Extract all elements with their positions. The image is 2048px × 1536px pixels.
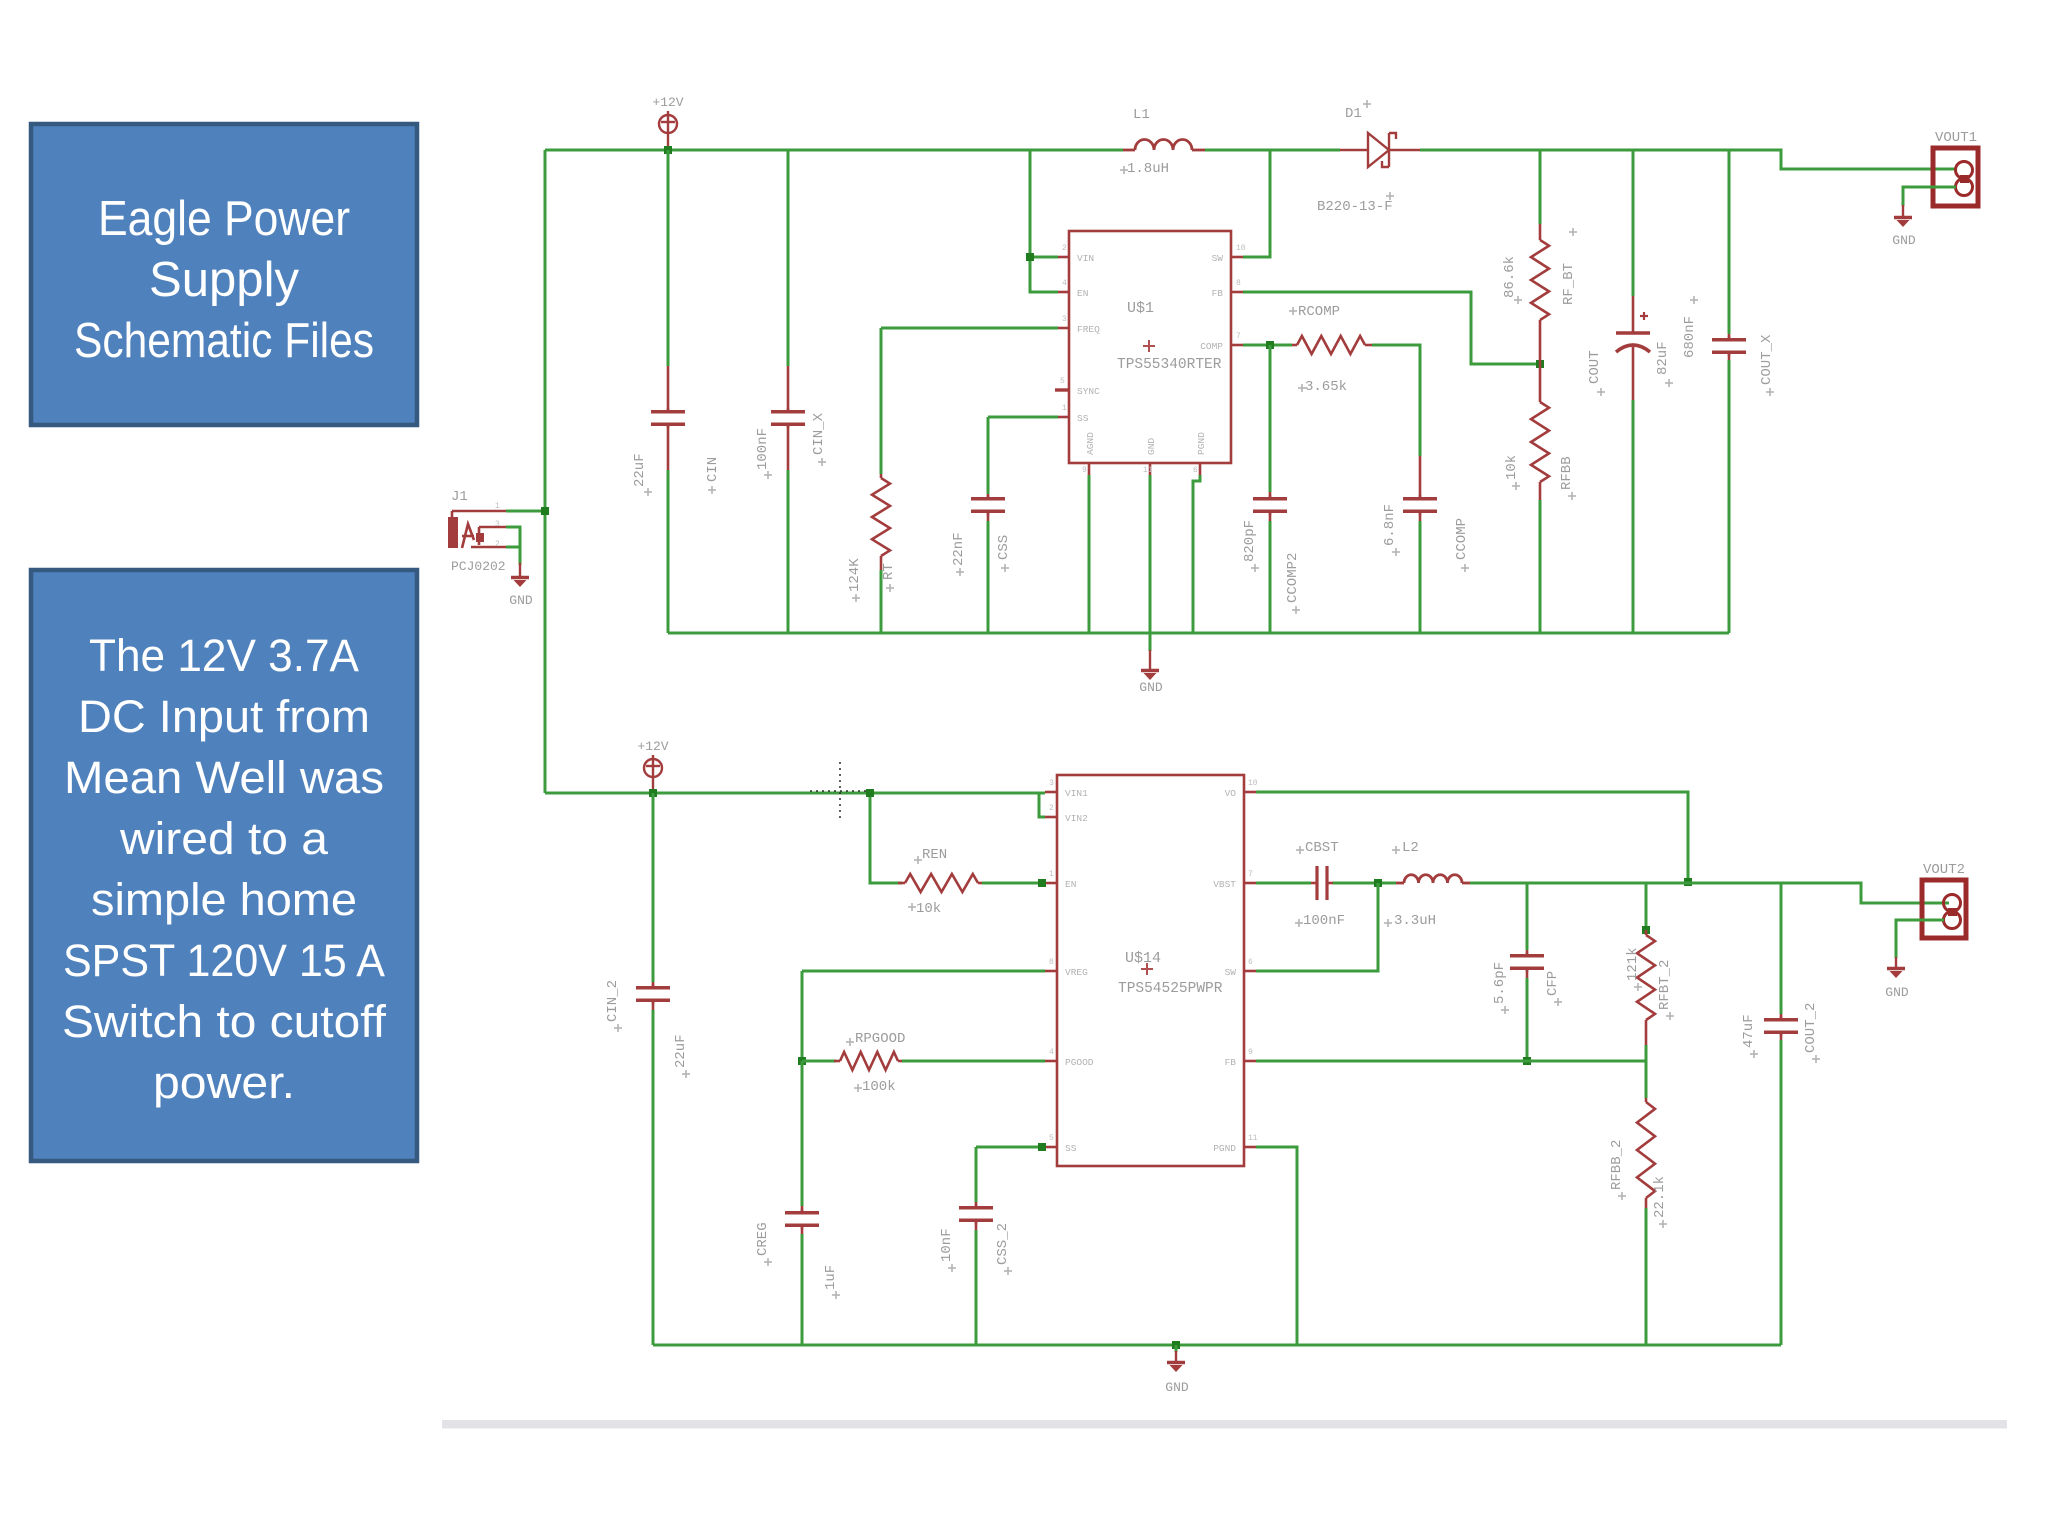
wire top rail to COUT	[1632, 150, 1635, 296]
svg-text:CSS_2: CSS_2	[995, 1223, 1011, 1265]
svg-text:1uF: 1uF	[823, 1265, 839, 1290]
svg-text:+12V: +12V	[637, 739, 668, 754]
origin cross 121k	[1634, 983, 1642, 991]
wire left +12V vertical rail	[544, 150, 547, 793]
origin cross 10k REN	[908, 903, 916, 911]
wire RT to FREQ	[881, 327, 1058, 330]
svg-text:22uF: 22uF	[673, 1034, 689, 1068]
svg-text:CCOMP2: CCOMP2	[1285, 553, 1301, 603]
wire top rail to SW U$1	[1243, 150, 1270, 257]
wire CSS top vertical	[987, 417, 990, 494]
svg-text:10: 10	[1236, 244, 1246, 253]
resistor RFBT_2	[1637, 930, 1655, 1045]
svg-text:SW: SW	[1225, 967, 1237, 978]
svg-text:EN: EN	[1065, 879, 1076, 890]
capacitor CREG	[785, 1206, 819, 1234]
origin cross COUT	[1597, 388, 1605, 396]
capacitor CSS	[971, 494, 1005, 521]
wire FB to RFBB_2	[1645, 1061, 1648, 1098]
svg-text:J1: J1	[451, 489, 468, 505]
wire COUT_2 to bottom rail	[1780, 1040, 1783, 1345]
origin cross CCOMP2	[1292, 606, 1300, 614]
junction +12V bottom	[649, 789, 657, 797]
svg-text:3: 3	[1062, 315, 1067, 324]
origin cross 1uF	[832, 1291, 840, 1299]
origin cross 86.6k	[1514, 296, 1522, 304]
svg-text:3.65k: 3.65k	[1305, 379, 1347, 395]
origin cross COUT_X	[1766, 388, 1774, 396]
wire PGND to rail	[1193, 475, 1200, 633]
op-amp U$14 TPS54525PWPR (IC box)	[1045, 775, 1256, 1166]
svg-text:RT: RT	[881, 563, 897, 580]
capacitor CIN	[651, 366, 685, 470]
svg-text:U$1: U$1	[1127, 300, 1154, 317]
wire bottom rail to GND symbol	[1175, 1345, 1178, 1352]
origin cross RT	[886, 584, 894, 592]
origin cross 100nF	[764, 471, 772, 479]
origin cross COUT_2	[1812, 1055, 1820, 1063]
wire FB to divider	[1243, 292, 1540, 364]
ground GND at VOUT2	[1887, 957, 1905, 978]
svg-text:7: 7	[1236, 332, 1241, 341]
svg-text:11: 11	[1248, 1134, 1258, 1143]
svg-text:RPGOOD: RPGOOD	[855, 1031, 905, 1047]
origin cross 10nF	[948, 1264, 956, 1272]
svg-text:RF_BT: RF_BT	[1561, 263, 1577, 305]
svg-text:8: 8	[1049, 958, 1054, 967]
junction VREG/PGOOD/CREG	[798, 1057, 806, 1065]
svg-text:RCOMP: RCOMP	[1298, 304, 1340, 320]
origin cross 82uF	[1665, 379, 1673, 387]
wire output to VOUT2	[1470, 883, 1949, 903]
svg-text:Mean Well was: Mean Well was	[64, 752, 384, 803]
origin cross B220-13-F	[1386, 192, 1394, 200]
svg-text:VOUT1: VOUT1	[1935, 130, 1977, 146]
svg-text:VO: VO	[1225, 788, 1237, 799]
resistor RPGOOD	[834, 1052, 904, 1070]
wire VOUT1 pin2 to ground	[1903, 187, 1956, 206]
svg-text:COUT_X: COUT_X	[1759, 334, 1775, 385]
svg-text:wired to a: wired to a	[119, 813, 329, 864]
origin cross CREG	[764, 1258, 772, 1266]
wire RFBB_2 to bottom rail	[1645, 1208, 1648, 1345]
junction J1/+12V rail	[541, 507, 549, 515]
svg-text:DC Input from: DC Input from	[78, 691, 370, 742]
svg-text:SW: SW	[1212, 253, 1224, 264]
wire to VIN U$1	[1030, 256, 1058, 259]
power +12V supply (bottom)	[644, 755, 662, 794]
origin cross 100k	[854, 1084, 862, 1092]
wire +12V rail top (left of L1)	[545, 149, 1123, 152]
wire VREG vertical	[801, 971, 804, 1061]
wire top rail to COUT_X	[1728, 150, 1731, 334]
origin cross 820pF	[1251, 564, 1259, 572]
svg-text:B220-13-F: B220-13-F	[1317, 199, 1393, 215]
svg-text:820pF: 820pF	[1242, 520, 1258, 562]
svg-text:9: 9	[1248, 1048, 1253, 1057]
svg-text:10nF: 10nF	[939, 1228, 955, 1262]
svg-text:100nF: 100nF	[755, 428, 771, 470]
svg-text:L2: L2	[1402, 840, 1419, 856]
svg-text:100k: 100k	[862, 1079, 896, 1095]
svg-text:9: 9	[1082, 466, 1087, 475]
svg-text:GND: GND	[509, 593, 533, 608]
wire CBST to L2	[1333, 882, 1396, 885]
svg-text:VREG: VREG	[1065, 967, 1088, 978]
svg-text:EN: EN	[1077, 288, 1088, 299]
capacitor CFP	[1510, 950, 1544, 978]
wire RFBB to gnd rail	[1539, 500, 1542, 633]
junction COMP/CCOMP2	[1266, 341, 1274, 349]
wire REN to EN U$14	[982, 882, 1045, 885]
junction VO/output	[1684, 878, 1692, 886]
svg-text:L1: L1	[1133, 107, 1150, 123]
wire RPGOOD to PGOOD U$14	[902, 1060, 1045, 1063]
origin cross 47uF	[1750, 1050, 1758, 1058]
svg-text:GND: GND	[1892, 233, 1916, 248]
wire CCOMP to gnd rail	[1419, 521, 1422, 633]
wire CIN_2 to bottom rail	[652, 1010, 655, 1345]
junction VIN branch	[1026, 253, 1034, 261]
wire CSS_2 to bottom rail	[975, 1230, 978, 1345]
origin cross CFP	[1554, 998, 1562, 1006]
capacitor COUT	[1616, 296, 1650, 400]
origin cross 100nF CBST	[1295, 919, 1303, 927]
svg-text:PGND: PGND	[1213, 1143, 1236, 1154]
junction REN branch	[866, 789, 874, 797]
origin cross RF_BT	[1569, 228, 1577, 236]
svg-text:CREG: CREG	[755, 1222, 771, 1256]
wire CCOMP2 to gnd rail	[1269, 521, 1272, 633]
junction SW bootstrap	[1374, 879, 1382, 887]
origin cross 10k RFBB	[1512, 482, 1520, 490]
origin cross U$14	[1141, 963, 1153, 975]
origin cross REN	[914, 856, 922, 864]
wire CIN to gnd rail	[667, 470, 670, 633]
ground GND at J1	[511, 563, 529, 587]
svg-text:TPS55340RTER: TPS55340RTER	[1117, 357, 1222, 373]
capacitor COUT_X	[1712, 334, 1746, 360]
capacitor CSS_2	[959, 1202, 993, 1230]
wire CCOMP2 top vertical	[1269, 345, 1272, 492]
origin cross CCOMP	[1461, 564, 1469, 572]
svg-text:Supply: Supply	[149, 253, 299, 307]
wire L1 to D1	[1205, 149, 1340, 152]
wire +12V rail bottom	[545, 792, 1045, 795]
svg-text:1.8uH: 1.8uH	[1127, 161, 1169, 177]
origin cross 22.1k	[1659, 1220, 1667, 1228]
connector VOUT1	[1933, 148, 1978, 206]
resistor RF_BT	[1531, 224, 1549, 364]
wire VBST to CBST	[1256, 882, 1311, 885]
svg-text:RFBB: RFBB	[1559, 456, 1575, 490]
wire J1 pins 2-3 bracket	[506, 527, 520, 547]
ground GND bottom circuit	[1167, 1351, 1185, 1372]
wire top rail to EN U$1	[1030, 150, 1058, 292]
svg-text:COMP: COMP	[1200, 341, 1223, 352]
wire to RPGOOD	[802, 1060, 836, 1063]
svg-text:VIN: VIN	[1077, 253, 1094, 264]
wire ground rail (top circuit)	[668, 632, 1729, 635]
wire AGND to rail	[1088, 475, 1091, 633]
wire J1 pin1 to +12V rail	[506, 510, 545, 513]
junction RFBT_2 lead	[1642, 926, 1650, 934]
origin cross CBST	[1296, 846, 1304, 854]
svg-text:VIN2: VIN2	[1065, 813, 1088, 824]
origin cross CIN_X	[818, 458, 826, 466]
svg-text:47uF: 47uF	[1741, 1014, 1757, 1048]
svg-text:simple home: simple home	[91, 874, 357, 925]
diode D1	[1340, 133, 1420, 167]
scrollbar track bottom	[442, 1420, 2007, 1429]
junction FB divider	[1536, 360, 1544, 368]
junction SS pin U$14	[1038, 1143, 1046, 1151]
svg-text:10: 10	[1248, 779, 1258, 788]
svg-text:5: 5	[1049, 1134, 1054, 1143]
svg-text:22.1k: 22.1k	[1652, 1176, 1668, 1218]
svg-text:CCOMP: CCOMP	[1454, 518, 1470, 560]
ground GND top circuit	[1141, 650, 1159, 680]
svg-text:power.: power.	[153, 1057, 295, 1108]
wire FB net bottom	[1256, 1060, 1646, 1063]
wire to CREG	[801, 1061, 804, 1206]
wire top rail to CIN_X	[787, 150, 790, 366]
origin cross L1 value	[1120, 166, 1128, 174]
junction +12V/top rail	[664, 146, 672, 154]
svg-text:121k: 121k	[1625, 947, 1641, 981]
svg-text:22nF: 22nF	[951, 532, 967, 566]
wire gnd rail to GND symbol	[1149, 633, 1152, 651]
origin cross L2	[1392, 846, 1400, 854]
origin cross D1	[1363, 100, 1371, 108]
junction EN pin U$14	[1038, 879, 1046, 887]
svg-text:4: 4	[1049, 1048, 1054, 1057]
wire CIN_X to gnd rail	[787, 470, 790, 633]
origin cross CIN	[708, 486, 716, 494]
resistor RCOMP	[1292, 336, 1372, 354]
resistor RFBB_2	[1637, 1098, 1655, 1208]
svg-text:REN: REN	[922, 847, 947, 863]
wire output to CFP	[1526, 883, 1529, 950]
ground GND at VOUT1	[1894, 205, 1912, 227]
wire CSS_2 to SS U$14	[976, 1146, 1045, 1149]
origin cross RFBB_2	[1618, 1192, 1626, 1200]
wire VREG to CREG	[802, 970, 1045, 973]
inductor L2	[1404, 875, 1462, 883]
svg-text:86.6k: 86.6k	[1502, 256, 1518, 298]
svg-text:GND: GND	[1139, 680, 1163, 695]
junction CFP/FB	[1523, 1057, 1531, 1065]
svg-text:11: 11	[1143, 466, 1153, 475]
svg-text:VBST: VBST	[1213, 879, 1236, 890]
origin cross CSS_2	[1004, 1267, 1012, 1275]
origin cross 124K	[852, 594, 860, 602]
svg-text:Eagle Power: Eagle Power	[98, 192, 350, 246]
capacitor CCOMP2	[1253, 492, 1287, 521]
origin cross 22nF	[956, 568, 964, 576]
svg-text:6.8nF: 6.8nF	[1382, 504, 1398, 546]
svg-text:Schematic Files: Schematic Files	[74, 314, 374, 368]
svg-text:CIN_2: CIN_2	[605, 980, 621, 1022]
origin cross 3.3uH	[1384, 919, 1392, 927]
op-amp U$1 TPS55340RTER (IC box)	[1055, 231, 1243, 475]
junction bottom rail/GND	[1172, 1341, 1180, 1349]
wire CFP to FB	[1526, 978, 1529, 1061]
svg-text:1: 1	[1049, 870, 1054, 879]
svg-text:+12V: +12V	[652, 95, 683, 110]
svg-text:AGND: AGND	[1085, 432, 1096, 455]
svg-text:2: 2	[495, 540, 500, 549]
origin cross CIN_2	[614, 1024, 622, 1032]
wire RCOMP to CCOMP	[1372, 345, 1420, 456]
svg-text:7: 7	[1248, 870, 1253, 879]
callout box: Eagle Power Supply Schematic Files	[31, 124, 417, 425]
capacitor CIN_X	[771, 366, 805, 470]
wire VIN2 bracket	[1039, 793, 1045, 817]
callout box: The 12V 3.7A DC Input description	[31, 570, 417, 1161]
svg-text:RFBB_2: RFBB_2	[1609, 1140, 1625, 1190]
resistor RFBB	[1531, 364, 1549, 500]
wire top rail to CIN	[667, 150, 670, 366]
origin cross 22uF CIN	[644, 488, 652, 496]
svg-text:TPS54525PWPR: TPS54525PWPR	[1118, 981, 1223, 997]
wire J1 to ground	[519, 547, 522, 565]
capacitor COUT_2	[1764, 1014, 1798, 1040]
svg-text:1: 1	[1062, 404, 1067, 413]
svg-text:22uF: 22uF	[632, 453, 648, 487]
wire GND to rail	[1149, 475, 1152, 633]
origin cross RFBT_2	[1666, 1012, 1674, 1020]
inductor L1	[1135, 140, 1192, 151]
capacitor CIN_2	[636, 982, 670, 1010]
cursor crosshair	[810, 762, 870, 822]
wire CSS to SS	[988, 416, 1058, 419]
svg-text:FB: FB	[1225, 1057, 1237, 1068]
svg-text:GND: GND	[1165, 1380, 1189, 1395]
svg-text:CBST: CBST	[1305, 840, 1339, 856]
svg-text:3: 3	[495, 520, 500, 529]
svg-text:1: 1	[495, 502, 500, 511]
svg-text:3.3uH: 3.3uH	[1394, 913, 1436, 929]
wire COMP to RCOMP	[1243, 344, 1292, 347]
svg-text:FREQ: FREQ	[1077, 324, 1100, 335]
svg-text:10k: 10k	[916, 901, 941, 917]
wire CSS_2 vertical	[975, 1147, 978, 1202]
origin cross 22uF CIN_2	[682, 1070, 690, 1078]
capacitor CCOMP	[1403, 456, 1437, 521]
svg-text:SS: SS	[1077, 413, 1089, 424]
svg-text:D1: D1	[1345, 106, 1362, 122]
wire L2 leads	[1396, 882, 1470, 885]
connector J1 PCJ0202	[448, 511, 506, 548]
svg-text:10k: 10k	[1504, 455, 1520, 480]
svg-text:2: 2	[1049, 804, 1054, 813]
wire +12V to CIN_2	[652, 793, 655, 982]
svg-text:2: 2	[1062, 244, 1067, 253]
wire COUT to gnd rail	[1632, 400, 1635, 633]
wire PGND to bottom rail	[1256, 1147, 1297, 1345]
svg-text:PCJ0202: PCJ0202	[451, 559, 506, 574]
svg-text:FB: FB	[1212, 288, 1224, 299]
svg-text:CFP: CFP	[1545, 971, 1561, 996]
svg-text:CSS: CSS	[996, 535, 1012, 560]
svg-text:Switch to cutoff: Switch to cutoff	[62, 996, 387, 1047]
origin cross 6.8nF	[1392, 548, 1400, 556]
svg-text:6: 6	[1193, 466, 1198, 475]
wire ground rail (bottom circuit)	[653, 1344, 1781, 1347]
svg-text:PGND: PGND	[1196, 432, 1207, 455]
origin cross U$1	[1143, 340, 1155, 352]
svg-text:GND: GND	[1885, 985, 1909, 1000]
wire output to COUT_2	[1780, 883, 1783, 1014]
svg-text:COUT: COUT	[1587, 350, 1603, 384]
svg-text:CIN: CIN	[705, 457, 721, 482]
wire VOUT2 pin2 to ground	[1896, 920, 1944, 958]
svg-text:U$14: U$14	[1125, 950, 1161, 967]
origin cross 5.6pF	[1501, 1006, 1509, 1014]
wire RT to gnd rail	[880, 570, 883, 633]
wire RT top vertical	[880, 328, 883, 474]
svg-text:82uF: 82uF	[1655, 341, 1671, 375]
wire CSS to gnd rail	[987, 521, 990, 633]
wire +12V to REN	[870, 793, 902, 883]
origin cross RFBB	[1568, 492, 1576, 500]
svg-text:3: 3	[1049, 779, 1054, 788]
origin cross RCOMP	[1289, 307, 1297, 315]
capacitor CBST	[1311, 866, 1333, 900]
origin cross CSS	[1001, 564, 1009, 572]
resistor REN	[898, 874, 984, 892]
svg-text:GND: GND	[1146, 438, 1157, 455]
svg-text:CIN_X: CIN_X	[811, 412, 827, 455]
wire top rail to RF_BT	[1539, 150, 1542, 224]
wire RFBT_2 to FB	[1645, 1045, 1648, 1061]
wire D1 cathode to VOUT1 pin1	[1420, 150, 1956, 169]
svg-text:SS: SS	[1065, 1143, 1077, 1154]
connector VOUT2	[1922, 880, 1966, 938]
wire CREG to bottom rail	[801, 1234, 804, 1345]
origin cross RPGOOD	[846, 1038, 854, 1046]
svg-text:COUT_2: COUT_2	[1803, 1003, 1819, 1053]
svg-text:SYNC: SYNC	[1077, 386, 1100, 397]
svg-text:The 12V 3.7A: The 12V 3.7A	[89, 630, 359, 681]
wire L1 leads	[1123, 149, 1205, 152]
svg-text:8: 8	[1236, 279, 1241, 288]
svg-text:SPST 120V 15 A: SPST 120V 15 A	[63, 935, 385, 986]
svg-text:680nF: 680nF	[1682, 316, 1698, 358]
origin cross 680nF	[1690, 296, 1698, 304]
wire output to RFBT_2	[1645, 883, 1648, 928]
svg-text:VIN1: VIN1	[1065, 788, 1088, 799]
wire SW to bootstrap	[1256, 883, 1378, 971]
resistor RT	[872, 474, 890, 570]
wire VO to output	[1256, 792, 1688, 882]
origin cross 3.65k	[1298, 384, 1306, 392]
svg-text:5.6pF: 5.6pF	[1492, 962, 1508, 1004]
svg-text:4: 4	[1062, 279, 1067, 288]
power +12V supply (top)	[659, 111, 677, 150]
svg-text:6: 6	[1248, 958, 1253, 967]
svg-text:VOUT2: VOUT2	[1923, 862, 1965, 878]
svg-text:124K: 124K	[847, 558, 863, 592]
svg-text:100nF: 100nF	[1303, 913, 1345, 929]
svg-text:RFBT_2: RFBT_2	[1657, 960, 1673, 1010]
wire COUT_X to gnd rail	[1728, 360, 1731, 633]
svg-text:5: 5	[1060, 377, 1065, 386]
svg-text:PGOOD: PGOOD	[1065, 1057, 1094, 1068]
